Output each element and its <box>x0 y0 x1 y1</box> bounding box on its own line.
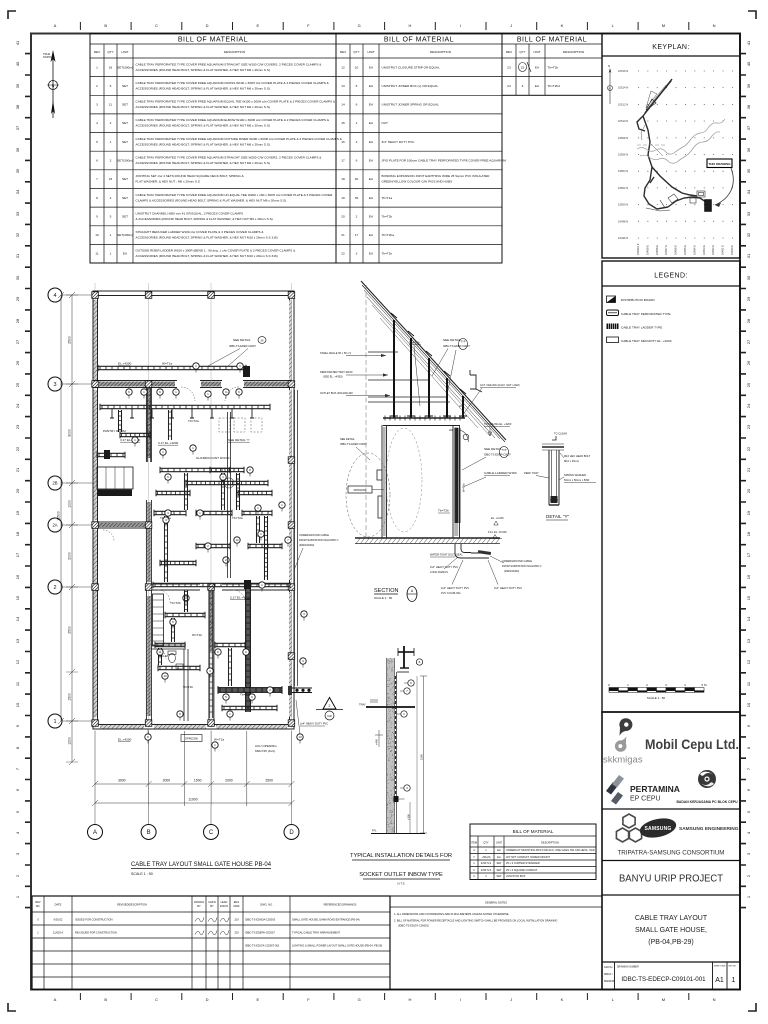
svg-text:13: 13 <box>298 735 302 739</box>
svg-text:DRAWING NUMBER: DRAWING NUMBER <box>617 966 639 969</box>
scale bar <box>609 688 619 691</box>
svg-text:IDBC-TS-EDEP-C0007: IDBC-TS-EDEP-C0007 <box>229 344 256 348</box>
svg-text:CABLE TRAY LADDER TYPE: CABLE TRAY LADDER TYPE <box>621 325 662 329</box>
skkmigas logo <box>603 718 643 765</box>
svg-text:1200: 1200 <box>68 737 72 745</box>
svg-text:SMALL GATE HOUSE, DAMA ROAD EN: SMALL GATE HOUSE, DAMA ROAD ENTRANCE (PB… <box>292 918 360 922</box>
svg-text:J2U: J2U <box>234 931 239 935</box>
svg-text:BADAN KERJASAMA PC BLOK CEPU: BADAN KERJASAMA PC BLOK CEPU <box>676 800 738 804</box>
svg-text:Tb=T2b: Tb=T2b <box>548 65 559 69</box>
svg-text:1: 1 <box>96 65 98 69</box>
svg-text:C02: C02 <box>327 714 332 718</box>
svg-text:UNIT: UNIT <box>367 50 374 54</box>
svg-text:DISTRIBUTION BOARD: DISTRIBUTION BOARD <box>621 298 655 302</box>
svg-text:M10 x 20mm: M10 x 20mm <box>564 459 579 463</box>
svg-text:ACCESSORIES (ROUND HEAD BOLT,: ACCESSORIES (ROUND HEAD BOLT, SPRING & F… <box>136 87 270 91</box>
svg-text:10: 10 <box>355 65 359 69</box>
conduit dashed <box>395 676 397 799</box>
svg-text:CABLE TRAY LAYOUT SMALL GATE H: CABLE TRAY LAYOUT SMALL GATE HOUSE PB-04 <box>131 861 271 868</box>
svg-text:14: 14 <box>341 103 345 107</box>
svg-text:W=T1b: W=T1b <box>192 633 202 637</box>
svg-text:D: D <box>206 23 209 28</box>
svg-text:37: 37 <box>15 125 20 130</box>
svg-text:FROM SUBSTATION NGGOBO C: FROM SUBSTATION NGGOBO C <box>299 538 339 542</box>
svg-text:K: K <box>561 997 564 1002</box>
door swing arcs <box>103 387 245 659</box>
svg-text:11000: 11000 <box>188 798 197 802</box>
svg-text:C: C <box>155 23 158 28</box>
svg-text:14: 14 <box>15 616 20 621</box>
svg-text:I: I <box>460 997 461 1002</box>
svg-text:(SEE EL. +4350): (SEE EL. +4350) <box>323 375 343 379</box>
svg-text:IDBC-TS-EDEP-C0007: IDBC-TS-EDEP-C0007 <box>340 442 367 446</box>
side scale numbers left <box>15 40 30 908</box>
svg-text:ACT. CEILING (GALV. SHT. LIAM): ACT. CEILING (GALV. SHT. LIAM) <box>480 383 520 387</box>
svg-text:1500: 1500 <box>419 754 423 760</box>
svg-text:W=T1b: W=T1b <box>183 685 193 689</box>
svg-text:35: 35 <box>355 196 359 200</box>
svg-text:UNISTRUT CLOSURE STRIP OR EQUA: UNISTRUT CLOSURE STRIP OR EQUAL <box>382 65 440 69</box>
svg-text:2000: 2000 <box>225 779 233 783</box>
svg-text:35: 35 <box>15 168 20 173</box>
svg-text:35: 35 <box>746 168 751 173</box>
svg-text:UNIT: UNIT <box>533 50 540 54</box>
svg-text:41: 41 <box>746 40 751 45</box>
svg-text:DESCRIPTION: DESCRIPTION <box>430 50 451 54</box>
svg-text:CABLE TRAY SECURITY EL. +2000: CABLE TRAY SECURITY EL. +2000 <box>621 339 672 343</box>
svg-text:10502 N: 10502 N <box>618 186 628 190</box>
svg-text:3: 3 <box>356 252 358 256</box>
svg-text:E: E <box>256 997 259 1002</box>
svg-text:2. BILL OF MATERIAL FOR POWER: 2. BILL OF MATERIAL FOR POWER RECEPTACLE… <box>394 919 557 923</box>
svg-text:5: 5 <box>356 84 358 88</box>
svg-text:19: 19 <box>15 510 20 515</box>
svg-text:40: 40 <box>355 177 359 181</box>
svg-text:32: 32 <box>15 232 20 237</box>
svg-text:SCALE 1 : 50: SCALE 1 : 50 <box>647 696 666 700</box>
svg-text:UNDERGROUND CABLE: UNDERGROUND CABLE <box>299 533 329 537</box>
legend item distribution board <box>607 296 616 303</box>
svg-text:+300: +300 <box>407 814 411 820</box>
svg-text:11: 11 <box>109 103 112 107</box>
svg-text:REVISED/DESCRIPTION: REVISED/DESCRIPTION <box>117 903 147 907</box>
svg-text:10459 E: 10459 E <box>645 245 649 255</box>
svg-text:STRAIGHT REDUCER LADDER W100 c: STRAIGHT REDUCER LADDER W100 c/w COVER P… <box>136 230 265 234</box>
svg-text:10508 N: 10508 N <box>618 136 628 140</box>
svg-text:22: 22 <box>341 252 345 256</box>
svg-text:1. ALL DIMENSIONS AND COORDIN: 1. ALL DIMENSIONS AND COORDINATES ARE IN… <box>394 912 510 916</box>
svg-text:19: 19 <box>341 196 345 200</box>
svg-text:7: 7 <box>96 177 98 181</box>
svg-text:SET: SET <box>122 177 128 181</box>
svg-text:34: 34 <box>15 189 20 194</box>
north arrow <box>43 50 59 118</box>
tray y470 <box>160 467 230 473</box>
svg-text:J: J <box>510 23 512 28</box>
svg-text:13: 13 <box>746 638 751 643</box>
svg-text:& ACCESSORIES (ROUND HEAD BOLT: & ACCESSORIES (ROUND HEAD BOLT, SPRING &… <box>136 217 273 221</box>
svg-text:W=T1a: W=T1a <box>462 483 466 492</box>
dpr02304 label <box>348 486 372 493</box>
small bill of material <box>470 824 596 880</box>
svg-text:EL.+4200: EL.+4200 <box>118 738 132 742</box>
svg-text:A: A <box>54 23 57 28</box>
keyplan grid crosses <box>638 71 733 239</box>
svg-text:Tb=T2a: Tb=T2a <box>188 419 199 423</box>
corner mark top-right <box>748 11 756 19</box>
svg-text:24: 24 <box>746 403 751 408</box>
top ticks <box>80 22 688 30</box>
svg-text:2500: 2500 <box>68 336 72 344</box>
svg-text:23: 23 <box>507 65 511 69</box>
svg-text:REV: REV <box>94 50 101 54</box>
svg-text:5: 5 <box>96 140 98 144</box>
legend box <box>602 261 740 712</box>
svg-text:TRAY: TRAY <box>359 703 366 707</box>
svg-text:ITEM: ITEM <box>471 841 477 845</box>
svg-text:C: C <box>209 830 214 836</box>
svg-text:Mobil Cepu Ltd.: Mobil Cepu Ltd. <box>645 737 739 752</box>
svg-text:BANYU URIP PROJECT: BANYU URIP PROJECT <box>619 873 724 885</box>
svg-text:PERTAMINA: PERTAMINA <box>630 784 680 794</box>
svg-text:EA: EA <box>497 855 501 859</box>
svg-text:ACCESSORIES (ROUND HEAD BOLT,: ACCESSORIES (ROUND HEAD BOLT, SPRING & F… <box>136 236 278 240</box>
wall hatch bands <box>94 300 293 729</box>
hanger rods <box>394 320 463 418</box>
svg-text:KEYPLAN:: KEYPLAN: <box>652 44 689 51</box>
keyplan north arrow <box>608 70 613 104</box>
svg-text:SECTION: SECTION <box>374 588 398 594</box>
horizontal members <box>368 352 465 426</box>
svg-text:12: 12 <box>341 65 345 69</box>
svg-text:BILL OF MATERIAL: BILL OF MATERIAL <box>178 37 248 44</box>
svg-text:SAMSUNG ENGINEERING: SAMSUNG ENGINEERING <box>679 826 739 832</box>
toilet fixtures <box>169 653 176 662</box>
svg-text:33: 33 <box>746 211 751 216</box>
svg-text:1500: 1500 <box>68 693 72 701</box>
item bubbles <box>126 389 132 395</box>
svg-text:N: N <box>608 64 610 68</box>
pantry counter <box>97 467 133 489</box>
grid2 long tray <box>153 582 290 588</box>
pantry tray <box>97 452 125 458</box>
svg-text:SET(300m): SET(300m) <box>117 233 133 237</box>
svg-text:22: 22 <box>746 446 751 451</box>
svg-text:IDBC-TS-EDEPA-C02007: IDBC-TS-EDEPA-C02007 <box>245 931 275 935</box>
svg-text:2000: 2000 <box>68 552 72 560</box>
svg-text:10454 E: 10454 E <box>692 245 696 255</box>
svg-text:SHEET SIZE: SHEET SIZE <box>714 966 726 968</box>
svg-text:TO CLEAN: TO CLEAN <box>554 432 567 436</box>
tray grid2B run <box>186 480 268 486</box>
tray y546 segments <box>196 543 230 549</box>
svg-text:PANTRY ROOM: PANTRY ROOM <box>103 429 126 433</box>
svg-text:30: 30 <box>15 275 20 280</box>
svg-text:10: 10 <box>746 702 751 707</box>
svg-text:CABLE TRAY PERFORATED TYPE COV: CABLE TRAY PERFORATED TYPE COVER FREE AQ… <box>136 156 323 160</box>
svg-text:10498 N: 10498 N <box>618 219 628 223</box>
tray y690 dark <box>218 688 282 693</box>
svg-text:29: 29 <box>15 296 20 301</box>
svg-text:17: 17 <box>746 552 751 557</box>
svg-text:17: 17 <box>341 159 345 163</box>
section roof slope <box>361 281 506 442</box>
svg-text:2: 2 <box>356 214 358 218</box>
general notes box <box>390 896 602 990</box>
svg-text:5 M: 5 M <box>701 683 707 687</box>
svg-text:10512 N: 10512 N <box>618 102 628 106</box>
svg-text:40: 40 <box>746 61 751 66</box>
svg-text:NO.: NO. <box>36 904 41 908</box>
bill of material table 3 <box>502 34 602 96</box>
svg-text:Tb=T1a: Tb=T1a <box>382 196 393 200</box>
svg-text:25: 25 <box>746 382 751 387</box>
exterior right tray <box>295 390 298 686</box>
svg-text:22: 22 <box>15 446 20 451</box>
svg-text:26: 26 <box>746 360 751 365</box>
svg-text:IDBC-TS-EDEP-C0007: IDBC-TS-EDEP-C0007 <box>443 344 470 348</box>
svg-text:CABLE LADDER W150: CABLE LADDER W150 <box>484 471 517 475</box>
svg-text:3: 3 <box>96 103 98 107</box>
svg-text:20: 20 <box>341 214 345 218</box>
section wall grid line <box>365 285 367 540</box>
svg-text:15: 15 <box>341 121 345 125</box>
svg-text:10452 E: 10452 E <box>711 245 715 255</box>
svg-text:2: 2 <box>110 121 112 125</box>
svg-text:SMALL GATE HOUSE,: SMALL GATE HOUSE, <box>635 927 707 934</box>
svg-text:SET: SET <box>496 874 501 878</box>
svg-text:40: 40 <box>15 61 20 66</box>
svg-text:1: 1 <box>356 121 358 125</box>
svg-text:Tb=T2b: Tb=T2b <box>438 509 449 513</box>
svg-text:Tb=T2b: Tb=T2b <box>382 214 393 218</box>
svg-text:6: 6 <box>96 159 98 163</box>
svg-text:98321 /: 98321 / <box>604 972 613 976</box>
svg-text:UNDERCUT MOUNTING BOX FOR ACU,: UNDERCUT MOUNTING BOX FOR ACU, ONE GANG … <box>506 848 595 852</box>
svg-text:IDBC-TS-EDADA-C02003: IDBC-TS-EDADA-C02003 <box>245 918 276 922</box>
svg-text:ACCESSORIES (ROUND HEAD BOLT,: ACCESSORIES (ROUND HEAD BOLT, SPRING & F… <box>136 161 270 165</box>
svg-text:RE-ISSUED FOR CONSTRUCTION: RE-ISSUED FOR CONSTRUCTION <box>75 931 117 935</box>
svg-text:2: 2 <box>53 585 56 591</box>
svg-text:6: 6 <box>356 159 358 163</box>
tray y615 <box>165 612 205 618</box>
svg-text:1: 1 <box>53 719 56 725</box>
dim 1500 <box>420 676 427 833</box>
svg-text:31: 31 <box>15 253 20 258</box>
svg-text:BONDING EXPANSION JOINT EARTHI: BONDING EXPANSION JOINT EARTHING WIRE 25… <box>382 174 491 178</box>
svg-text:SCALE 1 : 50: SCALE 1 : 50 <box>131 872 153 876</box>
side scale numbers right <box>741 40 751 908</box>
svg-text:37: 37 <box>746 125 751 130</box>
svg-text:32: 32 <box>746 232 751 237</box>
svg-text:18: 18 <box>341 177 345 181</box>
svg-text:23: 23 <box>109 177 113 181</box>
title block outer <box>602 712 740 990</box>
svg-text:K: K <box>561 23 564 28</box>
svg-text:2x50 S.S: 2x50 S.S <box>481 861 492 865</box>
svg-text:DATE: DATE <box>55 903 62 907</box>
svg-text:JUNCTION BOX: JUNCTION BOX <box>506 874 526 878</box>
top grid letters <box>54 23 716 28</box>
svg-text:LEGEND:: LEGEND: <box>654 273 688 280</box>
svg-text:20: 20 <box>746 488 751 493</box>
svg-text:DRAWN: DRAWN <box>194 900 204 904</box>
svg-text:CABLE TRAY PERFORATED TYPE COV: CABLE TRAY PERFORATED TYPE COVER FREE AQ… <box>136 81 330 85</box>
svg-text:SEE DETAIL: SEE DETAIL <box>340 437 355 441</box>
svg-text:M10 HEX HEAD BOLT: M10 HEX HEAD BOLT <box>564 454 591 458</box>
svg-text:THIS DRAWING: THIS DRAWING <box>708 162 731 166</box>
bottom ticks <box>80 993 688 1000</box>
svg-text:ACU OPENING: ACU OPENING <box>255 744 277 748</box>
toilet walls <box>151 645 188 721</box>
svg-text:3: 3 <box>53 382 56 388</box>
svg-text:UNISTRUT CHANNEL H300 mm 41 GR: UNISTRUT CHANNEL H300 mm 41 GR.EQUAL, 2 … <box>136 211 244 215</box>
svg-text:39: 39 <box>15 83 20 88</box>
svg-text:WATER TIGHT DUCT SEAL: WATER TIGHT DUCT SEAL <box>430 553 463 557</box>
svg-text:(PB-04,PB-29): (PB-04,PB-29) <box>648 939 694 946</box>
vertical tray at C lower <box>209 590 212 718</box>
svg-text:C: C <box>155 997 158 1002</box>
svg-text:ACCESSORIES (ROUND HEAD BOLT,: ACCESSORIES (ROUND HEAD BOLT, SPRING & F… <box>136 124 270 128</box>
legend item cable tray perforated type <box>607 310 619 316</box>
svg-text:CABLE TRAY PERFORATED TYPE COV: CABLE TRAY PERFORATED TYPE COVER FREE AQ… <box>136 62 323 66</box>
revision table <box>32 896 390 990</box>
svg-text:16: 16 <box>341 140 345 144</box>
svg-text:FFL: FFL <box>372 829 377 833</box>
svg-text:UNDERGROUND CABLE: UNDERGROUND CABLE <box>502 559 532 563</box>
svg-text:J2U: J2U <box>234 918 239 922</box>
svg-text:26: 26 <box>15 360 20 365</box>
tripatra hexagons <box>616 814 641 842</box>
svg-text:NUT: NUT <box>382 121 388 125</box>
svg-text:W=T1a: W=T1a <box>162 362 172 366</box>
svg-text:11: 11 <box>158 650 161 654</box>
svg-text:16: 16 <box>15 574 20 579</box>
svg-text:I: I <box>460 23 461 28</box>
extra trays <box>110 409 254 418</box>
svg-text:N: N <box>713 997 716 1002</box>
svg-text:10500 N: 10500 N <box>618 203 628 207</box>
svg-text:10456 E: 10456 E <box>674 245 678 255</box>
svg-text:10457 E: 10457 E <box>664 245 668 255</box>
svg-text:A: A <box>93 830 97 836</box>
svg-text:SPRING WASHER: SPRING WASHER <box>564 473 586 477</box>
svg-text:1: 1 <box>110 252 112 256</box>
svg-text:8: 8 <box>96 196 98 200</box>
svg-text:NORTH: NORTH <box>43 55 52 59</box>
svg-text:TYPICAL INSTALLATION DETAILS F: TYPICAL INSTALLATION DETAILS FOR <box>350 853 452 859</box>
svg-text:13: 13 <box>341 84 345 88</box>
svg-text:QTY: QTY <box>353 50 359 54</box>
svg-text:H: H <box>408 997 411 1002</box>
svg-text:10496 N: 10496 N <box>618 236 628 240</box>
keyplan box <box>602 34 740 259</box>
vertical dark tray x248 <box>246 585 251 712</box>
svg-text:21: 21 <box>15 467 20 472</box>
svg-text:Tb=T2bd: Tb=T2bd <box>548 84 561 88</box>
svg-text:D: D <box>289 830 294 836</box>
svg-text:27: 27 <box>15 339 20 344</box>
svg-text:2: 2 <box>96 84 98 88</box>
detail Y channel <box>542 444 564 505</box>
svg-text:(IDBC-TS-EDLTA-C00001): (IDBC-TS-EDLTA-C00001) <box>398 924 429 928</box>
svg-text:IDBC-TS-EDEP-C0007: IDBC-TS-EDEP-C0007 <box>484 453 511 457</box>
svg-text:H: H <box>408 23 411 28</box>
svg-text:B: B <box>104 997 107 1002</box>
svg-text:3/4" HEAVY DUTY PVC: 3/4" HEAVY DUTY PVC <box>382 140 416 144</box>
svg-text:15: 15 <box>746 595 751 600</box>
svg-text:SET(300m): SET(300m) <box>117 65 133 69</box>
svg-text:DWG, NO.: DWG, NO. <box>260 903 273 907</box>
svg-text:21: 21 <box>341 233 345 237</box>
svg-text:UNISTRUT JOINER SPRING OR EQUA: UNISTRUT JOINER SPRING OR EQUAL <box>382 103 440 107</box>
svg-text:6/30/12: 6/30/12 <box>54 918 63 922</box>
corner mark bottom-left <box>8 1003 16 1011</box>
svg-text:2: 2 <box>110 196 112 200</box>
svg-text:104510 E: 104510 E <box>636 243 640 255</box>
columns <box>92 292 99 299</box>
svg-text:Tb=T2b: Tb=T2b <box>170 601 181 605</box>
svg-text:2A: 2A <box>52 523 57 528</box>
dim 400 <box>375 730 383 747</box>
underground cable exit <box>292 688 312 693</box>
corner mark bottom-right <box>748 1003 756 1011</box>
svg-text:10453 E: 10453 E <box>702 245 706 255</box>
svg-text:5: 5 <box>110 214 112 218</box>
svg-text:CABLE TRAY LAYOUT: CABLE TRAY LAYOUT <box>635 915 708 922</box>
interior wall grid B <box>146 384 151 721</box>
svg-text:M: M <box>662 23 665 28</box>
tray at socket level <box>366 706 415 708</box>
svg-text:G: G <box>358 997 361 1002</box>
svg-text:DESCRIPTION: DESCRIPTION <box>541 841 559 845</box>
svg-text:FLAT WASHER, & HEX NUT ; M6 x: FLAT WASHER, & HEX NUT ; M6 x 20mm S.S <box>136 180 200 184</box>
svg-text:10: 10 <box>163 674 167 678</box>
svg-text:SEE DETAIL: SEE DETAIL <box>484 447 502 451</box>
section floor <box>355 537 500 539</box>
svg-text:GUARD/COUNT ROOM: GUARD/COUNT ROOM <box>196 456 230 460</box>
svg-text:TYP: TYP <box>461 341 466 344</box>
svg-text:9: 9 <box>96 214 98 218</box>
svg-text:LEAD: LEAD <box>221 900 228 904</box>
wall bracket <box>470 370 482 392</box>
svg-text:PVC COUPLING: PVC COUPLING <box>441 591 461 595</box>
svg-text:CHK'D: CHK'D <box>208 900 216 904</box>
svg-text:DPR02304: DPR02304 <box>354 488 367 492</box>
svg-text:REV: REV <box>506 50 513 54</box>
svg-text:REV: REV <box>340 50 347 54</box>
svg-text:27: 27 <box>746 339 751 344</box>
svg-text:(DWG02302): (DWG02302) <box>299 543 314 547</box>
svg-text:GREEN/YELLOW COLOUR C/W PIGS A: GREEN/YELLOW COLOUR C/W PIGS AND HUBS <box>382 180 453 184</box>
svg-text:DPR02306: DPR02306 <box>185 737 198 741</box>
svg-text:SET: SET <box>122 196 128 200</box>
svg-text:BY: BY <box>197 904 201 908</box>
svg-text:23: 23 <box>746 424 751 429</box>
svg-text:N.T.S: N.T.S <box>397 882 404 886</box>
svg-text:PERFORATED TRAY W150: PERFORATED TRAY W150 <box>320 370 353 374</box>
tray y708 <box>222 705 277 711</box>
svg-text:LIGHTING & SMALL POWER LAYOUT: LIGHTING & SMALL POWER LAYOUT SMALL GATE… <box>292 944 382 948</box>
svg-text:CLAMPS & ACCESSORIES (ROUND HE: CLAMPS & ACCESSORIES (ROUND HEAD BOLT, S… <box>136 198 287 202</box>
keyplan airstrip wedge <box>646 91 657 108</box>
svg-text:CAD No.: CAD No. <box>604 966 613 969</box>
svg-text:J: J <box>510 997 512 1002</box>
svg-text:660x745 (4x4): 660x745 (4x4) <box>255 749 275 753</box>
legend item cable tray ladder type <box>607 324 619 330</box>
svg-text:1000: 1000 <box>68 500 72 508</box>
tray y645 segments <box>155 642 185 648</box>
